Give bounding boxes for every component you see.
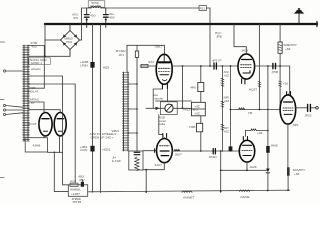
V2 grid wire [143, 150, 157, 152]
filter capacitor C2 [104, 8, 109, 28]
volume pot P1 [165, 104, 173, 112]
svg-text:AH 9HY: AH 9HY [90, 4, 101, 8]
HT line from rectifier through choke [82, 8, 211, 66]
ground bus (thick top rail) [45, 23, 317, 25]
svg-text:GBL?: GBL? [155, 44, 163, 48]
svg-text:360?: 360? [175, 153, 182, 157]
svg-text:+14B7: +14B7 [71, 192, 80, 196]
label box B1 [25, 138, 47, 152]
long vertical from C5 to V2 network [136, 57, 138, 151]
output tube V4 [243, 137, 247, 141]
svg-text:JP/E1: JP/E1 [209, 155, 218, 159]
HT dropper from rail [258, 24, 260, 110]
svg-text:450: 450 [90, 14, 95, 18]
output coupling to terminal [295, 107, 307, 109]
output wire V1 to V3 [172, 65, 238, 67]
junction dots on rail [69, 23, 300, 25]
output tube V3 [238, 54, 255, 79]
svg-text:HOLAT: HOLAT [28, 89, 38, 93]
anode load chain [200, 66, 202, 151]
svg-text:haila: haila [158, 122, 165, 126]
cathode resistor R20 [70, 183, 78, 186]
svg-text:ARND 1: ARND 1 [31, 61, 43, 65]
cathode RC network (R||C) [129, 151, 143, 170]
output tube V5 [287, 92, 291, 95]
edge mark mid-left [0, 99, 4, 101]
bias network box B2 [68, 185, 87, 197]
V4 cathode wiring [221, 162, 268, 170]
grid feed down to pot box [182, 66, 184, 108]
svg-text:PA/NE: PA/NE [241, 195, 250, 199]
rail junction dots [145, 189, 289, 193]
feedback resistor bumps [182, 191, 192, 192]
resistor R10 ticks [221, 102, 224, 107]
svg-text:+8Z: +8Z [285, 47, 291, 51]
earth symbol E1 [295, 9, 303, 24]
svg-text:WHEEL: WHEEL [70, 187, 81, 191]
resistor R9 ticks [221, 79, 224, 87]
rectifier diode D3 [90, 146, 94, 152]
output terminal [316, 107, 319, 110]
bias feed line with cap and diode [267, 66, 269, 190]
svg-text:43HB: 43HB [33, 144, 41, 148]
svg-text:F51: F51 [200, 6, 206, 10]
heater wire upper [29, 102, 44, 113]
anode coupling wire V3 to V5 [255, 66, 290, 95]
screen resistor squiggle [251, 129, 257, 131]
pot output wire [173, 107, 191, 109]
T1 tap wires [29, 46, 75, 89]
svg-text:6V/AT: 6V/AT [28, 122, 36, 126]
capacitor C10 [308, 104, 311, 111]
svg-text:450: 450 [109, 16, 114, 20]
filter capacitor C1 [84, 8, 89, 28]
pot lower wire to V2 grid cap [159, 115, 163, 135]
svg-text:PhHM: PhHM [73, 200, 82, 204]
edge mark bottom-left [0, 177, 4, 179]
resistor R8 [197, 123, 203, 132]
svg-text:bT: bT [31, 101, 35, 105]
svg-text:JH08: JH08 [270, 143, 278, 147]
bridge diode arrows [63, 34, 77, 46]
V7 bottom lead [59, 135, 61, 152]
dropper line B [99, 24, 101, 193]
bridge rectifier D1 [45, 24, 82, 56]
svg-text:JA03: JA03 [241, 49, 248, 53]
triode V2 [157, 139, 173, 163]
svg-text:JPB: JPB [216, 35, 222, 39]
svg-text:HQ?: HQ? [70, 179, 77, 183]
svg-text:HZB: HZB [189, 125, 195, 129]
diode D4 [266, 169, 270, 173]
V2 top cap C7 [163, 134, 167, 138]
svg-text:HQ5: HQ5 [103, 65, 110, 69]
svg-text:AC/N: AC/N [80, 148, 87, 152]
svg-text:+0Z: +0Z [224, 129, 230, 133]
grid-leak resistor ticks [258, 82, 261, 87]
coupling capacitor C6 [214, 63, 216, 69]
svg-text:/PS: /PS [73, 16, 78, 20]
wire [63, 76, 69, 185]
svg-text:woshu: woshu [154, 97, 163, 101]
svg-text:25V: 25V [79, 178, 85, 182]
svg-text:+0Z: +0Z [224, 74, 230, 78]
interstage winding W2 [124, 72, 129, 151]
W2 taps [129, 84, 137, 133]
svg-text:E.Fb/F: E.Fb/F [112, 159, 121, 163]
V1 grid wire and stopper [140, 65, 156, 67]
input pentode V1 [156, 54, 172, 84]
svg-text:PD4: PD4 [66, 40, 72, 44]
svg-text:450: 450 [31, 45, 36, 49]
V6 bottom lead into box [43, 135, 45, 138]
svg-text:3A0?: 3A0? [155, 163, 163, 167]
dropper line A [92, 24, 94, 192]
bias divider line [221, 66, 223, 152]
resistor R5 [198, 83, 204, 92]
divider resistors R6 R7 [192, 102, 206, 116]
cathode bus wire [155, 100, 191, 102]
V4 grid feed from above [244, 131, 246, 137]
heater feed vertical [74, 84, 76, 183]
svg-text:+0Z: +0Z [194, 105, 200, 109]
W2 top lead to V1 anode [127, 45, 164, 72]
screen cap C5 [136, 45, 138, 51]
svg-text:JP1: JP1 [119, 53, 125, 57]
cathode drop line [220, 151, 222, 192]
V1 bottom leads [162, 84, 167, 89]
pot shield box [160, 102, 177, 115]
feedback resistor bumps 2 [240, 190, 250, 191]
rail resistor R14 [279, 24, 281, 42]
svg-text:+8Z: +8Z [294, 172, 300, 176]
resistor R11 ticks [221, 125, 224, 130]
svg-text:SP1: SP1 [293, 123, 299, 127]
svg-text:wheels: wheels [31, 67, 41, 71]
V5 cathode resistor chain [287, 123, 289, 190]
wire down to bias network [54, 152, 68, 191]
bypass capacitor C20 [81, 182, 84, 187]
svg-text:4R6: 4R6 [190, 86, 196, 90]
power transformer T1 winding [24, 45, 28, 141]
svg-text:uP5 0?: uP5 0? [212, 59, 222, 63]
rectifier diode D2 [90, 62, 94, 68]
svg-text:HQ2?: HQ2? [249, 88, 257, 92]
svg-text:+0Z: +0Z [224, 99, 230, 103]
coupling capacitor C8 [213, 149, 215, 154]
ground return rail (bottom) [88, 190, 290, 192]
svg-text:JA09: JA09 [249, 165, 256, 169]
svg-text:1P0N: 1P0N [80, 64, 88, 68]
svg-text:0.4: 0.4 [112, 132, 117, 136]
mains input terminals (bottom trio) [3, 104, 5, 106]
svg-text:+16: +16 [283, 81, 289, 85]
heater wire lower [29, 110, 60, 113]
drive wire V2 to V4 [172, 150, 239, 152]
feedback divider line with blob [230, 66, 232, 146]
series resistor squiggle R12 [174, 149, 180, 151]
wire below box [48, 151, 63, 153]
svg-text:(P08: (P08 [272, 70, 279, 74]
edge mark top-left [0, 41, 5, 43]
svg-text:+0Z: +0Z [257, 131, 263, 135]
screen resistor ticks [279, 81, 282, 86]
resistor R15 [287, 167, 290, 176]
rectifier tube V6 [39, 113, 52, 136]
svg-text:+0Z: +0Z [194, 111, 200, 115]
grid wire to V5 [231, 109, 280, 111]
V2 cathode to ground [143, 163, 164, 170]
wire rail to bridge left [44, 24, 46, 56]
grid resistor squiggle [239, 108, 245, 110]
svg-text:SAT: SAT [148, 60, 154, 64]
svg-text:AN/NET: AN/NET [183, 195, 194, 199]
smoothing choke L1 [91, 7, 101, 8]
rectifier tube V7 [54, 113, 66, 136]
fuse FS1 [199, 6, 207, 11]
svg-text:H6: H6 [248, 111, 252, 115]
capacitor C9 [273, 63, 276, 68]
svg-text:OPEN UP 24D +: OPEN UP 24D + [91, 135, 114, 139]
signal arrow into pot [146, 107, 165, 109]
electrolytic C11 [266, 146, 270, 153]
svg-text:HQ51: HQ51 [102, 147, 110, 151]
svg-text:JP02: JP02 [304, 113, 311, 117]
mains input terminal (top) [3, 70, 5, 72]
V3 bottom lead ticks [242, 79, 245, 84]
